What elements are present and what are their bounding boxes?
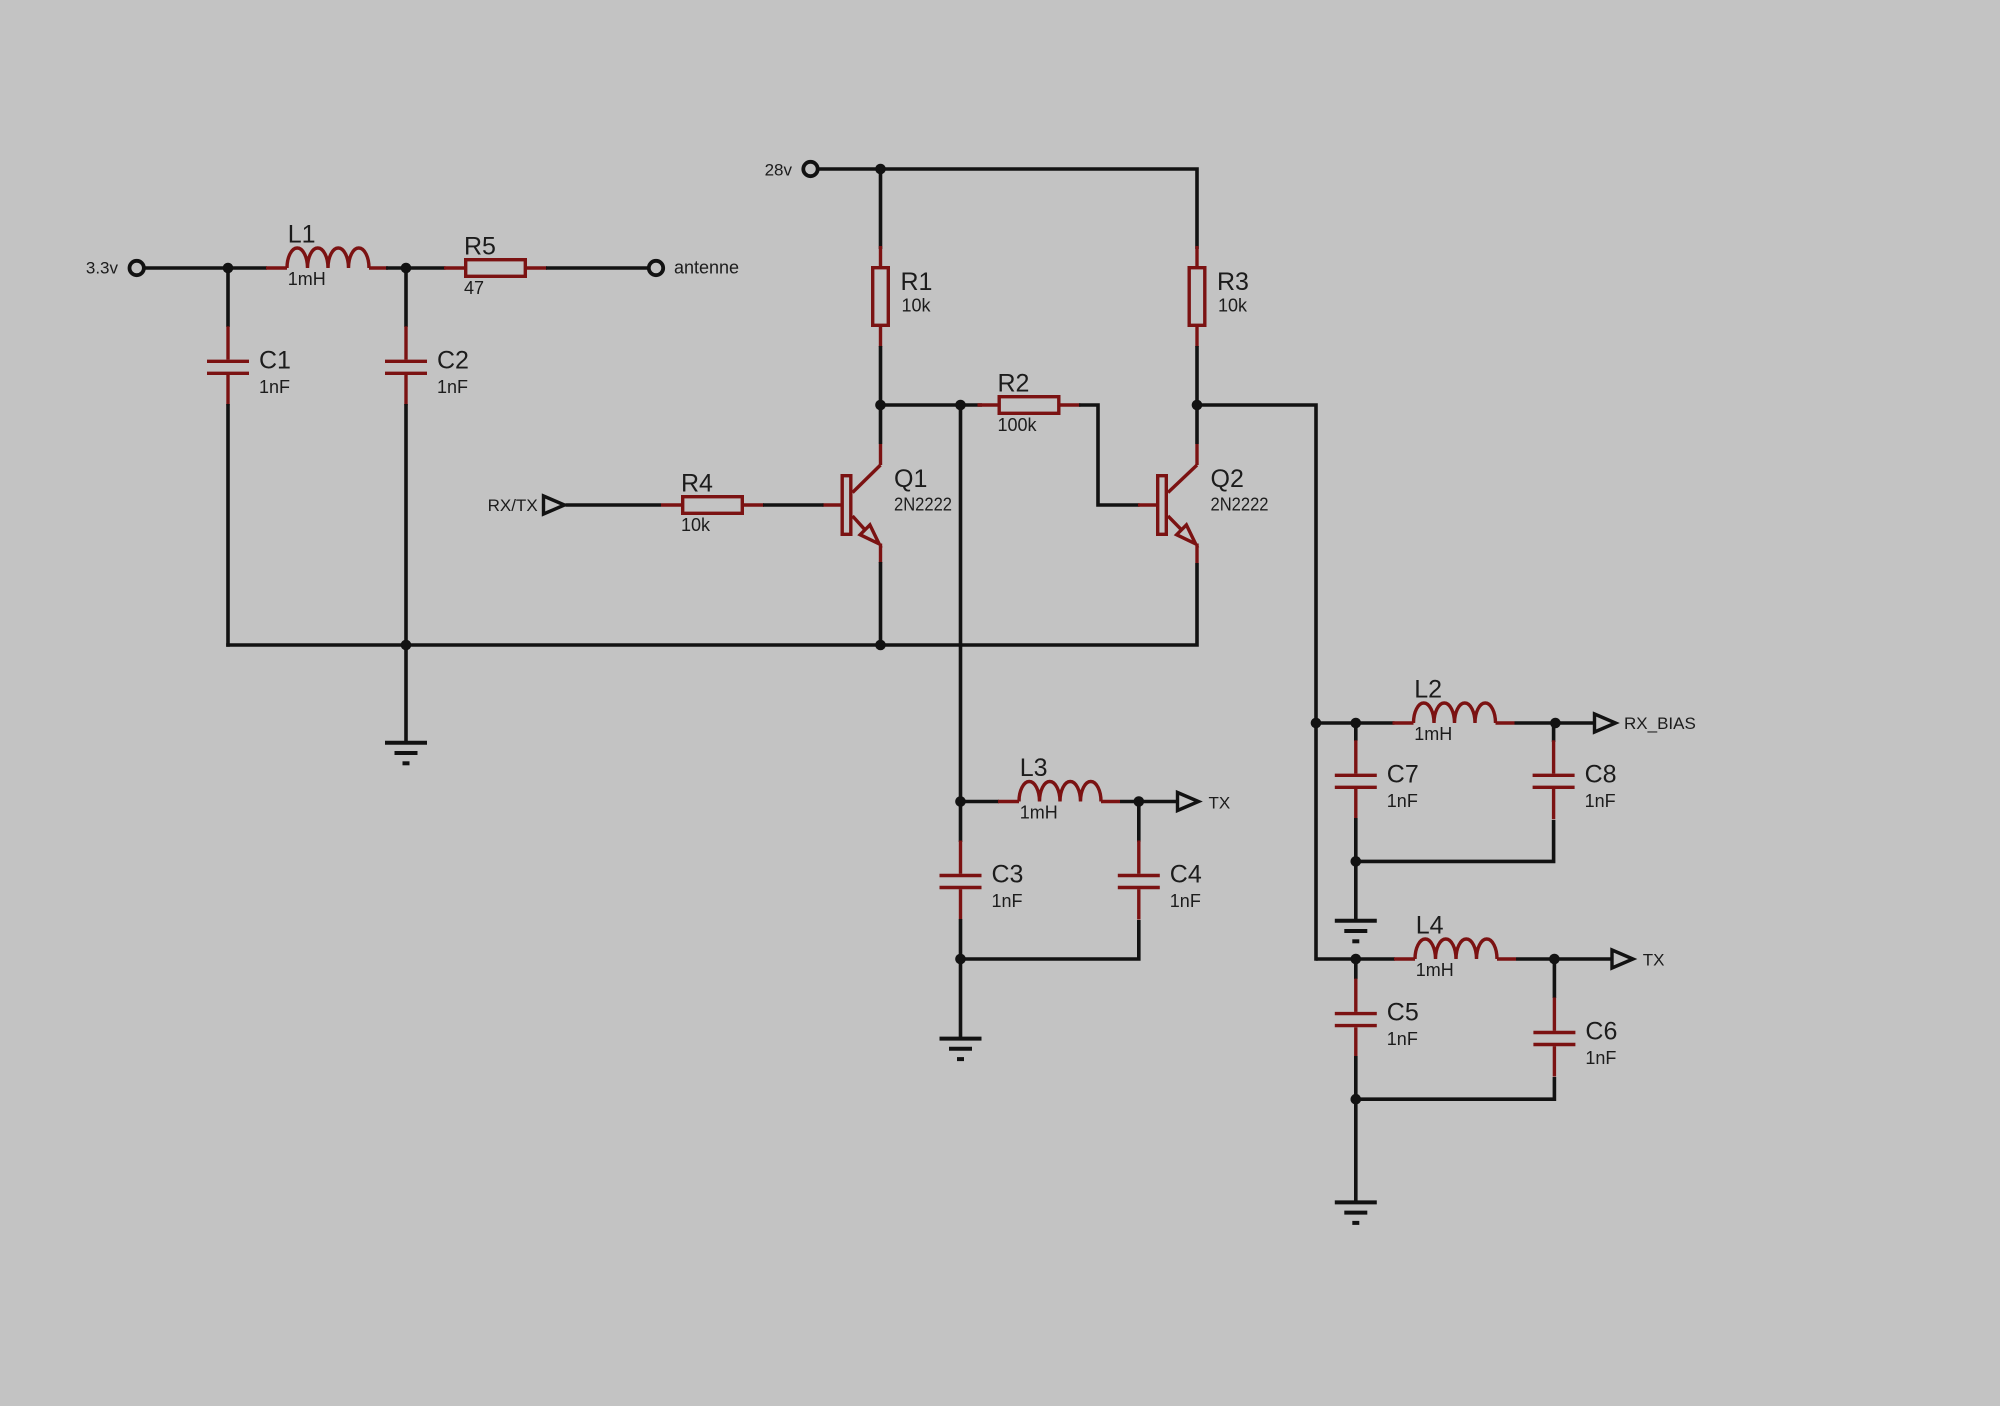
wire node D to right branch vertical xyxy=(1197,405,1316,961)
ground xyxy=(385,743,427,764)
wire RX/TX arrow to R4 xyxy=(566,503,662,507)
wire R4 to Q1 base xyxy=(763,503,824,507)
svg-text:C5: C5 xyxy=(1387,999,1419,1027)
wire Q1 emitter to ground rail xyxy=(879,562,883,647)
svg-text:1nF: 1nF xyxy=(259,377,290,397)
svg-text:C8: C8 xyxy=(1585,760,1617,788)
svg-text:R2: R2 xyxy=(998,370,1030,398)
node M junction dot xyxy=(1351,954,1362,965)
svg-text:C1: C1 xyxy=(259,346,291,374)
wire C3 to bottom wire xyxy=(959,919,963,961)
node rail-C2 junction dot xyxy=(401,640,412,651)
wire C3-C4 bottom connection xyxy=(961,920,1139,959)
svg-text:47: 47 xyxy=(464,278,484,298)
wire node A down to C1 xyxy=(226,268,230,327)
svg-text:Q1: Q1 xyxy=(894,465,927,493)
wire node F to node J xyxy=(1314,721,1395,725)
svg-text:1mH: 1mH xyxy=(1414,724,1452,744)
node L junction dot xyxy=(1351,856,1362,867)
wire L1 to node B xyxy=(386,266,446,270)
wire C1 to ground rail xyxy=(226,404,230,647)
wire node D down to Q2 collector xyxy=(1195,405,1199,444)
wire node B down to C2 xyxy=(404,268,408,327)
node H junction dot (TX) xyxy=(1134,796,1145,807)
svg-text:1mH: 1mH xyxy=(1020,803,1058,823)
terminal 3.3v xyxy=(130,261,144,275)
node A junction dot xyxy=(223,263,234,274)
svg-text:2N2222: 2N2222 xyxy=(1211,495,1269,515)
wire node L to ground G3 xyxy=(1354,861,1358,919)
svg-text:1nF: 1nF xyxy=(1387,1029,1418,1049)
ground xyxy=(1335,921,1377,942)
inductor L1 xyxy=(266,248,388,268)
wire R1 to node C xyxy=(879,346,883,407)
wire right branch to node M xyxy=(1316,957,1395,961)
svg-text:C4: C4 xyxy=(1170,861,1202,889)
wire node E down to L3 row xyxy=(959,405,963,803)
wire L4 to TX2 node xyxy=(1516,957,1613,961)
svg-text:R4: R4 xyxy=(681,470,713,498)
node J junction dot xyxy=(1351,718,1362,729)
resistor R5 xyxy=(444,260,547,277)
node K junction dot (RX_BIAS) xyxy=(1550,718,1561,729)
wire RX_BIAS node down to C8 xyxy=(1552,723,1556,742)
wire C5-C6 bottom connection xyxy=(1356,1077,1555,1099)
wire C5 to bottom wire xyxy=(1354,1056,1358,1101)
wire 3.3v to node A xyxy=(145,266,268,270)
ground xyxy=(1335,1202,1377,1223)
node E junction dot (to L3 branch) xyxy=(955,400,966,411)
input arrow RX/TX xyxy=(544,496,565,514)
wire L3 to TX node xyxy=(1120,800,1179,804)
wire ground rail (bottom horizontal) xyxy=(226,563,1197,645)
svg-text:1mH: 1mH xyxy=(288,269,326,289)
wire node C to R2 xyxy=(878,403,982,407)
wire TX node down to C4 xyxy=(1137,802,1141,843)
svg-text:L3: L3 xyxy=(1020,754,1048,782)
resistor R2 xyxy=(978,397,1081,414)
node N junction dot (TX2) xyxy=(1549,954,1560,965)
capacitor C7 xyxy=(1335,740,1377,819)
wire node J down to C7 xyxy=(1354,723,1358,741)
svg-text:RX_BIAS: RX_BIAS xyxy=(1624,714,1696,733)
svg-text:TX: TX xyxy=(1643,951,1665,970)
transistor Q1 xyxy=(823,444,881,563)
terminal antenne xyxy=(649,261,663,275)
inductor L2 xyxy=(1393,703,1515,723)
wire L2 to RX_BIAS node xyxy=(1515,721,1596,725)
svg-text:100k: 100k xyxy=(998,415,1038,435)
svg-text:L4: L4 xyxy=(1416,912,1444,940)
wire 28v rail to R3 top xyxy=(818,169,1197,249)
capacitor C8 xyxy=(1533,740,1575,819)
wire C7-C8 bottom connection xyxy=(1356,820,1554,861)
wire 28v node down to R1 xyxy=(879,169,883,249)
svg-text:3.3v: 3.3v xyxy=(86,259,119,278)
wire node I to ground G2 xyxy=(959,959,963,1038)
ground xyxy=(940,1039,982,1060)
transistor Q2 xyxy=(1138,444,1197,563)
svg-text:C6: C6 xyxy=(1585,1018,1617,1046)
svg-text:1mH: 1mH xyxy=(1416,960,1454,980)
wire node G down to C3 xyxy=(959,802,963,843)
wire R2 to Q2 base xyxy=(1079,405,1140,505)
node I junction dot xyxy=(955,954,966,965)
svg-text:Q2: Q2 xyxy=(1211,465,1244,493)
capacitor C6 xyxy=(1533,998,1575,1077)
output arrow TX2 xyxy=(1612,950,1633,968)
node F junction dot (L2 branch) xyxy=(1311,718,1322,729)
node rail-Q1-emitter junction dot xyxy=(875,640,886,651)
svg-text:R5: R5 xyxy=(464,233,496,261)
svg-text:1nF: 1nF xyxy=(1170,891,1201,911)
inductor L3 xyxy=(998,782,1120,802)
wire node M down to C5 xyxy=(1354,959,1358,979)
output arrow TX xyxy=(1178,793,1199,811)
wire R5 to antenne terminal xyxy=(546,266,649,270)
svg-text:R3: R3 xyxy=(1217,268,1249,296)
wire C7 to bottom wire xyxy=(1354,818,1358,863)
wire node G to L3 xyxy=(959,800,1000,804)
svg-text:10k: 10k xyxy=(902,296,932,316)
svg-text:1nF: 1nF xyxy=(992,891,1023,911)
svg-text:10k: 10k xyxy=(681,515,711,535)
node C junction dot xyxy=(875,400,886,411)
svg-text:RX/TX: RX/TX xyxy=(488,496,538,515)
svg-text:C2: C2 xyxy=(437,346,469,374)
capacitor C3 xyxy=(940,841,982,920)
wire R3 to node D xyxy=(1195,346,1199,407)
svg-text:2N2222: 2N2222 xyxy=(894,495,952,515)
svg-text:TX: TX xyxy=(1209,794,1231,813)
svg-text:28v: 28v xyxy=(765,161,793,180)
capacitor C2 xyxy=(385,326,427,405)
node 28v-R1 junction dot xyxy=(875,164,886,175)
svg-text:C7: C7 xyxy=(1387,760,1419,788)
svg-text:1nF: 1nF xyxy=(437,377,468,397)
resistor R3 xyxy=(1189,246,1205,347)
resistor R1 xyxy=(873,246,889,347)
svg-text:R1: R1 xyxy=(901,268,933,296)
wire node C down to Q1 collector xyxy=(879,405,883,444)
svg-text:1nF: 1nF xyxy=(1585,1048,1616,1068)
node D junction dot xyxy=(1192,400,1203,411)
wire C2 to ground rail xyxy=(404,404,408,645)
svg-text:antenne: antenne xyxy=(674,258,739,278)
svg-text:1nF: 1nF xyxy=(1387,791,1418,811)
wire node O to ground G4 xyxy=(1354,1099,1358,1201)
svg-text:1nF: 1nF xyxy=(1585,791,1616,811)
capacitor C4 xyxy=(1118,841,1160,920)
node B junction dot xyxy=(401,263,412,274)
svg-text:L2: L2 xyxy=(1414,676,1442,704)
resistor R4 xyxy=(661,497,764,514)
wire rail to ground G1 xyxy=(404,645,408,742)
wire TX2 node down to C6 xyxy=(1553,959,1557,998)
output arrow RX_BIAS xyxy=(1595,714,1616,732)
svg-text:L1: L1 xyxy=(288,221,316,249)
node G junction dot xyxy=(955,796,966,807)
svg-text:10k: 10k xyxy=(1218,296,1248,316)
capacitor C1 xyxy=(207,326,249,405)
inductor L4 xyxy=(1394,939,1516,959)
terminal 28v xyxy=(803,162,817,176)
capacitor C5 xyxy=(1335,979,1377,1058)
svg-text:C3: C3 xyxy=(992,861,1024,889)
node O junction dot xyxy=(1351,1094,1362,1105)
